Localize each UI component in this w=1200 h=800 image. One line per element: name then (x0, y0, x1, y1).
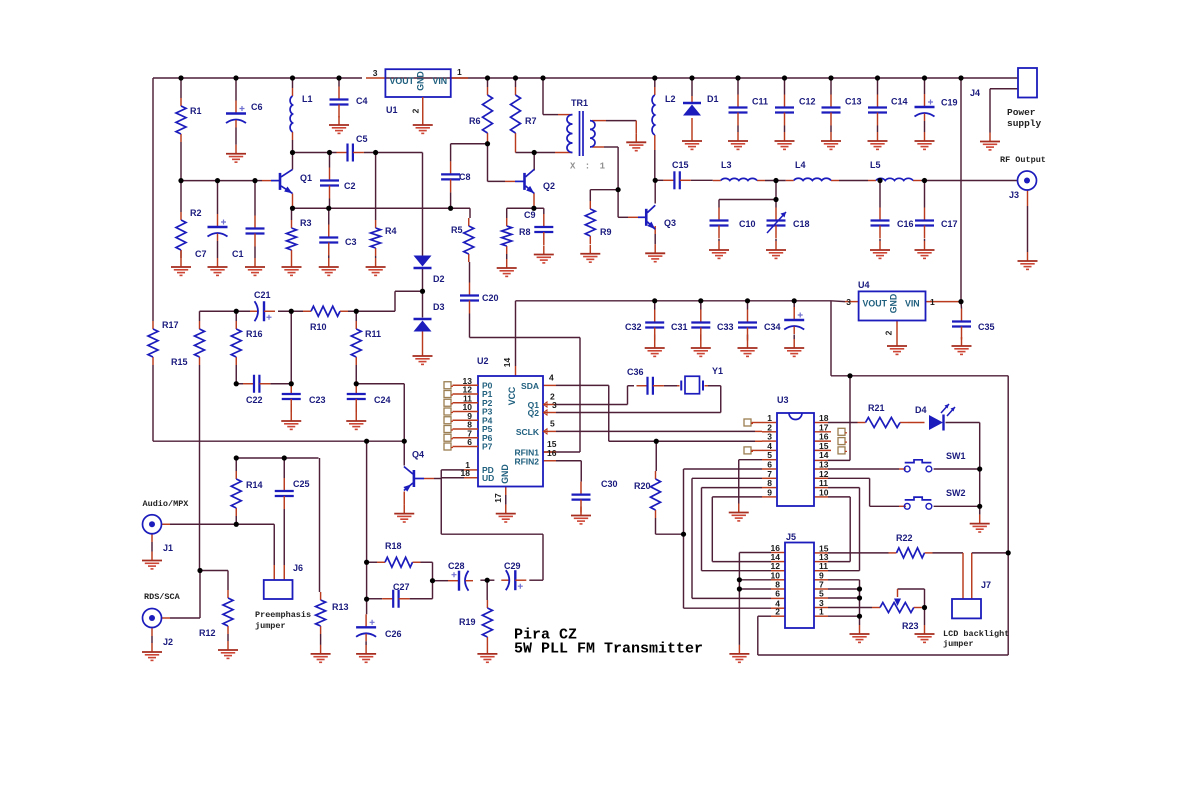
svg-text:L2: L2 (665, 94, 676, 104)
svg-text:C7: C7 (195, 249, 207, 259)
svg-text:U1: U1 (386, 105, 398, 115)
svg-text:J6: J6 (293, 563, 303, 573)
svg-text:1: 1 (819, 607, 824, 617)
svg-text:9: 9 (767, 487, 772, 497)
svg-text:R18: R18 (385, 541, 402, 551)
svg-text:J1: J1 (163, 543, 173, 553)
svg-text:jumper: jumper (943, 639, 974, 649)
svg-text:C31: C31 (671, 322, 688, 332)
svg-text:J3: J3 (1009, 190, 1019, 200)
svg-text:RDS/SCA: RDS/SCA (144, 592, 181, 602)
svg-text:C30: C30 (601, 479, 618, 489)
svg-text:C24: C24 (374, 395, 391, 405)
svg-text:C6: C6 (251, 102, 263, 112)
svg-text:C4: C4 (356, 96, 368, 106)
svg-text:18: 18 (461, 468, 471, 478)
svg-text:C29: C29 (504, 561, 521, 571)
svg-text:C12: C12 (799, 97, 816, 107)
svg-text:R10: R10 (310, 322, 327, 332)
svg-text:C19: C19 (941, 98, 958, 108)
svg-text:C26: C26 (385, 629, 402, 639)
svg-text:17: 17 (493, 493, 503, 503)
svg-text:C3: C3 (345, 237, 357, 247)
svg-text:RFIN2: RFIN2 (514, 457, 539, 467)
svg-text:J4: J4 (970, 88, 980, 98)
svg-text:14: 14 (502, 358, 512, 368)
svg-text:6: 6 (467, 437, 472, 447)
svg-text:R21: R21 (868, 403, 885, 413)
svg-text:R5: R5 (451, 225, 463, 235)
svg-text:supply: supply (1007, 118, 1042, 129)
svg-text:R15: R15 (171, 357, 188, 367)
svg-text:R3: R3 (300, 218, 312, 228)
svg-text:R2: R2 (190, 208, 202, 218)
svg-text:C5: C5 (356, 134, 368, 144)
svg-text:2: 2 (884, 330, 894, 335)
svg-text:C8: C8 (459, 172, 471, 182)
svg-text:R7: R7 (525, 116, 537, 126)
svg-text:10: 10 (819, 487, 829, 497)
svg-text:L4: L4 (795, 160, 806, 170)
svg-text:C20: C20 (482, 293, 499, 303)
svg-text:R4: R4 (385, 226, 397, 236)
svg-text:R9: R9 (600, 227, 612, 237)
svg-text:D1: D1 (707, 94, 719, 104)
svg-text:VIN: VIN (905, 299, 920, 309)
svg-text:C10: C10 (739, 219, 756, 229)
svg-text:Q4: Q4 (412, 450, 424, 460)
svg-text:Y1: Y1 (712, 366, 723, 376)
svg-text:R14: R14 (246, 480, 263, 490)
svg-text:Q2: Q2 (543, 181, 555, 191)
svg-text:3: 3 (552, 400, 557, 410)
svg-text:L5: L5 (870, 160, 881, 170)
svg-text:R8: R8 (519, 227, 531, 237)
svg-text:GND: GND (889, 294, 899, 314)
svg-text:D3: D3 (433, 302, 445, 312)
svg-text:SW2: SW2 (946, 488, 966, 498)
svg-text:C13: C13 (845, 97, 862, 107)
svg-text:R16: R16 (246, 329, 263, 339)
svg-text:VCC: VCC (507, 386, 517, 405)
svg-text:C9: C9 (524, 210, 536, 220)
svg-text:P7: P7 (482, 442, 493, 452)
svg-text:VOUT: VOUT (863, 299, 888, 309)
svg-text:C27: C27 (393, 582, 410, 592)
svg-text:R6: R6 (469, 116, 481, 126)
svg-text:Q3: Q3 (664, 218, 676, 228)
svg-text:R11: R11 (365, 329, 381, 339)
svg-text:VIN: VIN (433, 76, 448, 86)
svg-text:C21: C21 (254, 290, 271, 300)
svg-text:C14: C14 (891, 97, 908, 107)
svg-text:TR1: TR1 (571, 98, 588, 108)
svg-text:RF Output: RF Output (1000, 155, 1046, 165)
svg-text:C18: C18 (793, 219, 810, 229)
svg-text:C33: C33 (717, 322, 734, 332)
svg-text:D2: D2 (433, 274, 445, 284)
svg-text:U3: U3 (777, 395, 789, 405)
svg-text:SCLK: SCLK (516, 427, 540, 437)
svg-text:U2: U2 (477, 356, 489, 366)
svg-text:R20: R20 (634, 481, 651, 491)
svg-text:C23: C23 (309, 395, 326, 405)
svg-text:1: 1 (457, 67, 462, 77)
svg-text:R22: R22 (896, 533, 913, 543)
svg-text:C34: C34 (764, 322, 781, 332)
svg-text:3: 3 (373, 68, 378, 78)
svg-text:C2: C2 (344, 181, 356, 191)
svg-text:X : 1: X : 1 (570, 162, 607, 172)
svg-text:J7: J7 (981, 580, 991, 590)
svg-text:LCD backlight: LCD backlight (943, 629, 1009, 639)
svg-text:SDA: SDA (521, 381, 539, 391)
svg-text:SW1: SW1 (946, 451, 966, 461)
svg-text:R19: R19 (459, 617, 476, 627)
svg-text:R23: R23 (902, 621, 919, 631)
svg-text:GND: GND (416, 71, 426, 91)
svg-text:C28: C28 (448, 561, 465, 571)
svg-text:Preemphasis: Preemphasis (255, 610, 311, 620)
svg-text:R17: R17 (162, 320, 179, 330)
svg-text:GND: GND (500, 464, 510, 484)
svg-text:4: 4 (549, 372, 554, 382)
svg-text:C1: C1 (232, 249, 244, 259)
svg-text:1: 1 (930, 297, 935, 307)
svg-text:3: 3 (846, 297, 851, 307)
svg-text:VOUT: VOUT (390, 76, 415, 86)
svg-text:C11: C11 (752, 97, 768, 107)
svg-text:C35: C35 (978, 322, 995, 332)
svg-text:L3: L3 (721, 160, 732, 170)
svg-text:R12: R12 (199, 628, 216, 638)
svg-text:C17: C17 (941, 219, 958, 229)
svg-text:5: 5 (550, 419, 555, 429)
svg-text:Q1: Q1 (300, 173, 312, 183)
svg-text:L1: L1 (302, 94, 313, 104)
svg-text:C32: C32 (625, 322, 642, 332)
svg-text:2: 2 (775, 607, 780, 617)
svg-text:C22: C22 (246, 395, 263, 405)
svg-text:UD: UD (482, 473, 494, 483)
svg-text:5: 5 (819, 589, 824, 599)
svg-text:6: 6 (775, 589, 780, 599)
svg-text:16: 16 (547, 448, 557, 458)
svg-text:R1: R1 (190, 106, 202, 116)
svg-text:C15: C15 (672, 160, 689, 170)
svg-text:R13: R13 (332, 602, 349, 612)
svg-text:C36: C36 (627, 367, 644, 377)
svg-text:C16: C16 (897, 219, 914, 229)
svg-text:2: 2 (411, 108, 421, 113)
svg-text:J2: J2 (163, 637, 173, 647)
svg-text:C25: C25 (293, 479, 310, 489)
svg-text:5W PLL FM Transmitter: 5W PLL FM Transmitter (514, 641, 703, 658)
svg-text:Audio/MPX: Audio/MPX (143, 499, 190, 509)
svg-text:Power: Power (1007, 107, 1036, 118)
svg-text:Q2: Q2 (528, 408, 540, 418)
svg-text:J5: J5 (786, 532, 796, 542)
svg-text:U4: U4 (858, 280, 870, 290)
svg-text:D4: D4 (915, 405, 927, 415)
svg-text:jumper: jumper (255, 621, 286, 631)
